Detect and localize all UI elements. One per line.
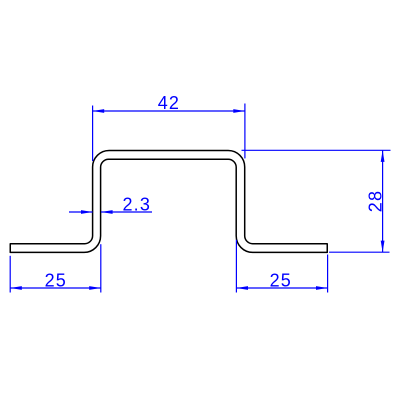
extension line right of right 25: [327, 255, 329, 293]
arrowhead left of 42: [93, 109, 105, 113]
dimension 42 (top width): [93, 104, 245, 162]
arrowhead bottom of 28: [381, 241, 385, 253]
dimension 2.3 (wall thickness): [69, 211, 152, 213]
svg-text:25: 25: [270, 270, 292, 290]
svg-text:42: 42: [158, 93, 180, 113]
arrowhead right of 42: [233, 109, 245, 113]
leader line right of 2.3: [101, 211, 152, 213]
svg-text:28: 28: [366, 190, 386, 212]
extension line left of right 25: [235, 240, 237, 293]
dimension line left 25: [10, 287, 101, 289]
svg-text:2.3: 2.3: [122, 195, 151, 215]
extension line right of 42: [244, 104, 246, 159]
leader line left of 2.3: [69, 211, 93, 213]
arrowhead pointing left at inner wall: [101, 210, 113, 214]
hat channel profile outline: [10, 151, 327, 253]
dimension 28 (height, right side): [242, 150, 391, 252]
arrowhead left of right 25: [236, 286, 248, 290]
arrowhead left of left 25: [10, 286, 22, 290]
dimension 25 (right flange): [236, 240, 327, 293]
dimension line 42: [93, 110, 245, 112]
arrowhead right of left 25: [89, 286, 101, 290]
arrowhead top of 28: [381, 150, 385, 162]
arrowhead pointing right at outer wall: [81, 210, 93, 214]
extension line bottom of 28: [329, 251, 390, 253]
extension line right of left 25: [100, 244, 102, 292]
extension line left of left 25: [9, 256, 11, 293]
extension line top of 28: [242, 149, 391, 151]
svg-text:25: 25: [45, 270, 67, 290]
dimension 25 (left flange): [10, 244, 101, 292]
dimension line right 25: [236, 287, 327, 289]
arrowhead right of right 25: [316, 286, 328, 290]
extension line left of 42: [92, 106, 94, 162]
dimension line 28: [382, 150, 384, 252]
